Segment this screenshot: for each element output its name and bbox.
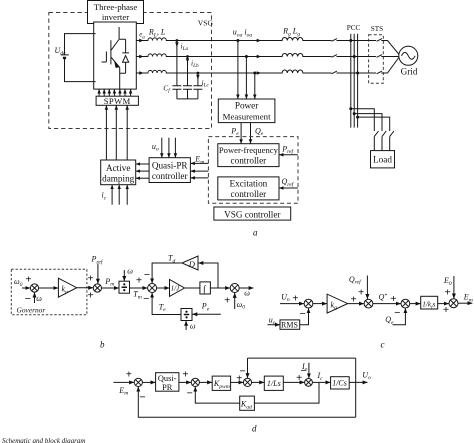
svg-text:Pref: Pref bbox=[281, 144, 294, 155]
svg-text:Grid: Grid bbox=[401, 67, 418, 77]
svg-text:Kpwm: Kpwm bbox=[213, 379, 230, 390]
svg-text:kp: kp bbox=[62, 285, 69, 296]
svg-text:iLb: iLb bbox=[191, 59, 199, 70]
svg-text:+: + bbox=[136, 275, 142, 287]
svg-text:Em: Em bbox=[118, 386, 128, 397]
svg-text:controller: controller bbox=[231, 156, 267, 166]
svg-text:RL, L: RL, L bbox=[148, 28, 166, 39]
svg-text:Qref: Qref bbox=[282, 177, 295, 188]
svg-text:PCC: PCC bbox=[347, 24, 361, 32]
svg-text:−: − bbox=[239, 366, 245, 378]
svg-text:−: − bbox=[300, 365, 306, 377]
svg-text:Schematic and block diagram: Schematic and block diagram bbox=[2, 437, 85, 443]
svg-text:+: + bbox=[390, 293, 396, 305]
svg-text:1/J: 1/J bbox=[171, 286, 180, 293]
svg-text:−: − bbox=[25, 293, 31, 305]
svg-text:1/Cs: 1/Cs bbox=[332, 379, 347, 388]
svg-text:Pe: Pe bbox=[201, 302, 210, 313]
svg-text:SPWM: SPWM bbox=[104, 96, 131, 106]
svg-text:Qusi-: Qusi- bbox=[158, 374, 177, 383]
svg-text:+: + bbox=[351, 293, 357, 305]
svg-text:ea: ea bbox=[139, 31, 145, 41]
svg-text:Quasi-PR: Quasi-PR bbox=[152, 161, 189, 171]
svg-text:VSG controller: VSG controller bbox=[224, 209, 280, 219]
svg-text:ω0: ω0 bbox=[14, 277, 23, 288]
svg-text:ω: ω bbox=[244, 288, 250, 297]
svg-text:inverter: inverter bbox=[102, 12, 129, 22]
svg-text:STS: STS bbox=[371, 25, 383, 33]
svg-text:a: a bbox=[253, 227, 258, 237]
svg-text:Power: Power bbox=[235, 101, 258, 111]
svg-text:Qe: Qe bbox=[385, 315, 394, 326]
svg-text:Pe: Pe bbox=[230, 126, 239, 137]
svg-text:Pref: Pref bbox=[91, 255, 104, 266]
svg-text:kq: kq bbox=[331, 300, 338, 311]
svg-text:−: − bbox=[187, 388, 193, 400]
svg-text:Load: Load bbox=[373, 155, 392, 165]
svg-text:controller: controller bbox=[152, 171, 188, 181]
svg-text:uo: uo bbox=[152, 142, 159, 153]
svg-text:Uo: Uo bbox=[362, 370, 371, 381]
svg-text:Pm: Pm bbox=[104, 277, 114, 288]
svg-text:Rg Lg: Rg Lg bbox=[282, 27, 300, 38]
svg-text:Governor: Governor bbox=[17, 305, 46, 314]
svg-text:Cf: Cf bbox=[163, 84, 171, 95]
svg-text:Excitation: Excitation bbox=[230, 178, 268, 188]
svg-text:+: + bbox=[224, 294, 230, 306]
svg-text:+: + bbox=[87, 273, 93, 285]
svg-text:VSG: VSG bbox=[198, 18, 214, 27]
svg-text:+: + bbox=[292, 293, 298, 305]
svg-text:+: + bbox=[443, 304, 449, 316]
svg-text:−: − bbox=[139, 392, 145, 404]
svg-text:+: + bbox=[87, 289, 93, 301]
svg-text:Kad: Kad bbox=[240, 400, 252, 411]
svg-text:−: − bbox=[394, 307, 400, 319]
svg-text:+: + bbox=[444, 287, 450, 299]
svg-text:+: + bbox=[25, 273, 31, 285]
svg-text:Ic: Ic bbox=[317, 371, 324, 382]
svg-text:+: + bbox=[182, 369, 188, 381]
svg-text:−: − bbox=[144, 269, 150, 281]
svg-text:ω: ω bbox=[127, 267, 133, 276]
svg-text:uoa ioa: uoa ioa bbox=[233, 28, 253, 39]
svg-text:controller: controller bbox=[231, 189, 267, 199]
svg-text:PR: PR bbox=[162, 383, 173, 392]
svg-text:Em: Em bbox=[463, 293, 473, 304]
svg-text:Active: Active bbox=[106, 163, 131, 173]
svg-text:ω: ω bbox=[36, 294, 42, 303]
svg-text:ω: ω bbox=[190, 322, 196, 331]
svg-text:ic: ic bbox=[102, 191, 107, 202]
svg-text:d: d bbox=[252, 424, 257, 434]
svg-text:E0: E0 bbox=[443, 276, 452, 287]
svg-text:Measurement: Measurement bbox=[223, 111, 271, 121]
svg-text:RMS: RMS bbox=[281, 321, 298, 330]
svg-text:Power-frequency: Power-frequency bbox=[219, 145, 279, 155]
svg-text:Qe: Qe bbox=[255, 126, 264, 137]
svg-text:Qref: Qref bbox=[349, 275, 362, 286]
svg-text:−: − bbox=[143, 293, 149, 305]
svg-text:Un: Un bbox=[281, 292, 290, 303]
svg-text:ω0: ω0 bbox=[237, 300, 246, 311]
svg-text:damping: damping bbox=[102, 174, 135, 184]
svg-text:D: D bbox=[188, 259, 196, 269]
svg-text:∫: ∫ bbox=[202, 285, 207, 295]
svg-text:Te: Te bbox=[159, 302, 166, 313]
svg-text:iLc: iLc bbox=[202, 78, 210, 89]
svg-text:Tm: Tm bbox=[133, 290, 142, 301]
svg-text:1/Ls: 1/Ls bbox=[267, 379, 281, 388]
svg-text:+: + bbox=[126, 369, 132, 381]
svg-text:c: c bbox=[381, 340, 385, 350]
svg-text:−: − bbox=[299, 308, 305, 320]
svg-text:Three-phase: Three-phase bbox=[94, 2, 138, 12]
svg-text:Q*: Q* bbox=[379, 293, 388, 302]
svg-text:+: + bbox=[358, 287, 364, 299]
svg-text:b: b bbox=[100, 340, 105, 350]
svg-text:iLa: iLa bbox=[181, 42, 189, 53]
